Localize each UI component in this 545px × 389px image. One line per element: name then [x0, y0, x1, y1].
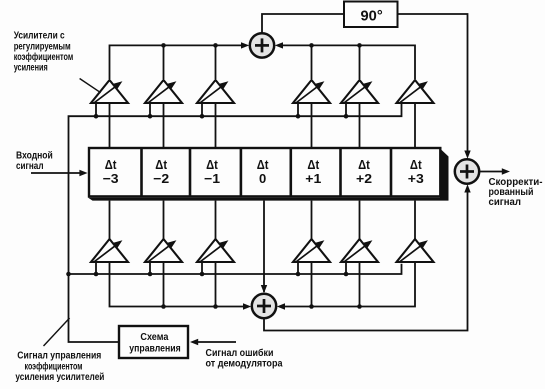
wire: amp B4 output leg: [311, 263, 313, 307]
svg-text:90°: 90°: [361, 9, 383, 25]
wire: delay-line tap up to amp T5 input: [359, 103, 361, 148]
svg-text:Δt: Δt: [307, 157, 319, 172]
svg-text:−3: −3: [103, 171, 119, 186]
wire: amp T5 gain-control stub: [345, 104, 347, 117]
phase shifter box U1 "90&#176;": [344, 2, 398, 28]
delay cell separator 2: [189, 148, 192, 196]
wire: S2 output down, right and up to S3 bottom input (arrow): [264, 187, 468, 331]
amplifier T5 (variable gain): [341, 80, 378, 104]
control unit box "Schema upravleniya": [119, 326, 188, 358]
delay cell separator 6: [390, 148, 393, 196]
wire: amp B2 output leg: [163, 263, 165, 307]
amplifier T3 (variable gain): [197, 80, 234, 104]
amplifier T2 (variable gain): [145, 80, 182, 104]
junction: amp T5 stub on top control bus: [344, 114, 349, 119]
wire: delay-line tap up to amp T6 input: [414, 103, 416, 148]
junction: B3 output on bottom bus: [213, 304, 218, 309]
wire: amp B4 gain-control stub: [297, 263, 299, 275]
junction: amp T2 stub on top control bus: [148, 114, 153, 119]
wire: amp B5 output leg: [359, 263, 361, 307]
svg-text:Δt: Δt: [155, 157, 167, 172]
amplifier B1 (variable gain): [91, 239, 128, 263]
pointer line from gain control label to control line: [44, 318, 70, 346]
wire: delay-line tap up to amp T2 input: [163, 103, 165, 148]
wire: delay-line tap up to amp T4 input: [311, 103, 313, 148]
wire: amp B2 gain-control stub: [149, 263, 151, 275]
delay cell separator 1: [140, 148, 143, 196]
pointer line from amplifier label to amp T1: [80, 79, 101, 93]
junction: amp B5 stub on bottom control bus: [344, 272, 349, 277]
amplifier T6 (variable gain): [397, 80, 434, 104]
wire: amp T3 output leg: [215, 45, 217, 79]
junction: amp B3 stub on bottom control bus: [200, 272, 205, 277]
junction: B5 output on bottom bus: [357, 304, 362, 309]
svg-text:сигнал: сигнал: [489, 197, 522, 208]
wire: bottom-left output bus from amp B1 to S2 left input (arrow): [110, 263, 249, 307]
amplifier B4 (variable gain): [293, 239, 330, 263]
wire: delay-line tap down to amp B4 input: [311, 201, 313, 240]
svg-text:Δt: Δt: [358, 157, 370, 172]
wire: corrected signal output arrow: [480, 171, 507, 173]
wire: bottom-right output bus from amp B6 to S2 right input (arrow): [280, 263, 415, 307]
junction: amp T3 stub on top control bus: [200, 114, 205, 119]
junction: amp T1 stub on top control bus: [94, 114, 99, 119]
svg-text:от демодулятора: от демодулятора: [206, 359, 284, 370]
wire: delay-line tap down to amp B3 input: [215, 201, 217, 240]
svg-text:−2: −2: [153, 171, 169, 186]
amplifier B5 (variable gain): [341, 239, 378, 263]
wire: delay-line tap up to amp T3 input: [215, 103, 217, 148]
junction: T2 output on top bus: [161, 43, 166, 48]
wire: error signal input arrow into control box: [193, 341, 236, 343]
wire: amp B3 output leg: [215, 263, 217, 307]
wire: delay-line tap down to amp B6 input: [414, 201, 416, 240]
amplifier T1 (variable gain): [91, 80, 128, 104]
amplifier B6 (variable gain): [397, 239, 434, 263]
wire: amp T2 gain-control stub: [149, 104, 151, 117]
wire: centre tap (cell 0) down to summer S2 top input (arrow): [263, 201, 265, 292]
wire: gain-control line from control box up the left side and along top control bus: [69, 104, 402, 343]
wire: delay-line tap up to amp T1 input: [109, 103, 111, 148]
amplifier B2 (variable gain): [145, 239, 182, 263]
wire: input signal arrow into delay line: [31, 172, 85, 174]
svg-text:+1: +1: [305, 171, 321, 186]
svg-text:Сигнал управления: Сигнал управления: [17, 351, 101, 362]
svg-text:Сигнал ошибки: Сигнал ошибки: [206, 348, 274, 359]
delay line drop shadow: [88, 149, 449, 201]
svg-text:Усилители с: Усилители с: [14, 31, 66, 42]
wire: amp T3 gain-control stub: [201, 104, 203, 117]
wire: summer S1 output up and right to 90-degree phase shifter: [262, 14, 344, 33]
wire: delay-line tap down to amp B2 input: [163, 201, 165, 240]
wire: top-right output bus from amp T6 apex to S1 right input (arrow): [278, 45, 415, 79]
svg-text:−1: −1: [204, 171, 220, 186]
svg-text:регулируемым: регулируемым: [14, 42, 71, 53]
svg-text:управления: управления: [129, 343, 180, 354]
delay line body (tapped delay line): [89, 148, 440, 196]
svg-text:Δt: Δt: [410, 157, 422, 172]
junction: amp B1 stub on bottom control bus: [94, 272, 99, 277]
svg-text:Δt: Δt: [105, 157, 117, 172]
junction: T5 output on top bus: [357, 43, 362, 48]
wire: bottom control bus: [69, 264, 402, 274]
junction: B2 output on bottom bus: [161, 304, 166, 309]
delay cell separator 5: [339, 148, 342, 196]
amplifier T4 (variable gain): [293, 80, 330, 104]
svg-text:усиления: усиления: [14, 63, 48, 74]
svg-text:0: 0: [259, 171, 266, 186]
summer S2 (bottom adder): [252, 294, 276, 318]
wire: amp T2 output leg: [163, 45, 165, 79]
wire: amp B1 gain-control stub: [95, 263, 97, 275]
wire: top-left output bus from amp T1 apex to S1 left input (arrow): [110, 45, 247, 79]
junction: T3 output on top bus: [213, 43, 218, 48]
wire: amp T4 gain-control stub: [297, 104, 299, 117]
svg-text:сигнал: сигнал: [16, 161, 44, 172]
svg-text:коэффициентом: коэффициентом: [14, 52, 73, 63]
amplifier B3 (variable gain): [197, 239, 234, 263]
wire: delay-line tap down to amp B1 input: [109, 201, 111, 240]
wire: 90-degree box output right and down to summer S3 top input (arrow): [398, 14, 468, 156]
delay cell separator 3: [240, 148, 243, 196]
svg-text:Схема: Схема: [140, 332, 169, 343]
junction: bottom control bus taps off left control line: [66, 272, 71, 277]
svg-text:усиления усилителей: усиления усилителей: [15, 372, 104, 383]
delay cell separator 4: [289, 148, 292, 196]
svg-text:+3: +3: [408, 171, 424, 186]
wire: amp T5 output leg: [359, 45, 361, 79]
wire: amp T1 gain-control stub: [95, 104, 97, 117]
svg-text:+2: +2: [356, 171, 372, 186]
wire: delay-line tap down to amp B5 input: [359, 201, 361, 240]
svg-text:Δt: Δt: [206, 157, 218, 172]
wire: amp T4 output leg: [311, 45, 313, 79]
junction: B4 output on bottom bus: [309, 304, 314, 309]
junction: amp B2 stub on bottom control bus: [148, 272, 153, 277]
junction: amp B4 stub on bottom control bus: [296, 272, 301, 277]
svg-text:коэффициентом: коэффициентом: [25, 362, 83, 373]
wire: amp B3 gain-control stub: [201, 263, 203, 275]
svg-text:Δt: Δt: [257, 157, 269, 172]
junction: amp T4 stub on top control bus: [296, 114, 301, 119]
summer S3 (output adder): [455, 159, 479, 183]
junction: T4 output on top bus: [309, 43, 314, 48]
svg-text:Входной: Входной: [16, 151, 53, 162]
summer S1 (top adder): [250, 33, 274, 57]
wire: amp B5 gain-control stub: [345, 263, 347, 275]
